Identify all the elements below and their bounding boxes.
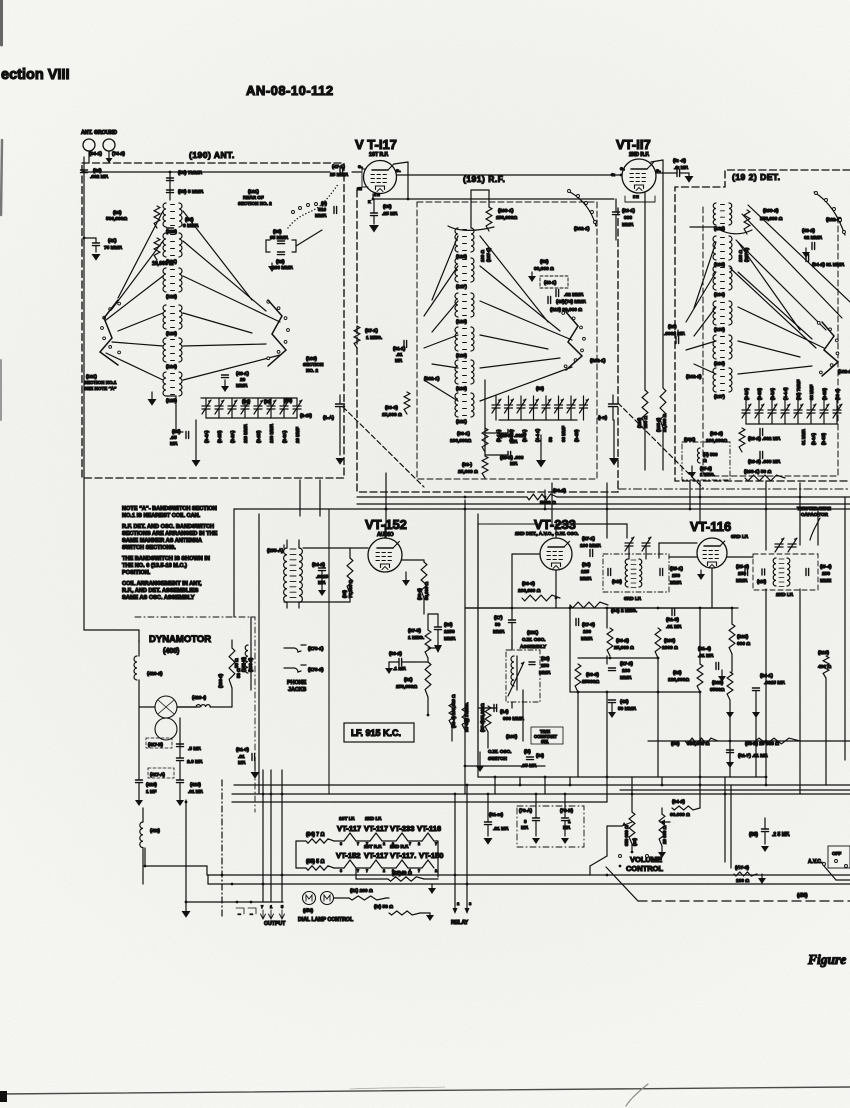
- RF coil (129): [455, 327, 474, 358]
- resistor (93-2) 100,000 ohm: [706, 428, 745, 452]
- line (107-3) net: [716, 862, 756, 868]
- labels 1ST I.F. 2ND I.F.: [339, 816, 382, 821]
- svg-text:MF.: MF.: [510, 461, 518, 467]
- svg-text:ANT. GROUND: ANT. GROUND: [81, 130, 117, 136]
- svg-text:(96-2): (96-2): [553, 488, 566, 494]
- vertical bus x465: [464, 500, 466, 794]
- svg-text:ection VIII: ection VIII: [1, 67, 70, 83]
- capacitor (32) 138 MMF: [268, 252, 293, 272]
- svg-text:(26): (26): [668, 324, 677, 330]
- junction dots set 1: [385, 496, 820, 511]
- choke (420-2): [134, 640, 163, 700]
- wire y608 long: [512, 607, 700, 609]
- svg-text:(66): (66): [749, 832, 758, 838]
- component drops to box bottom: [578, 692, 756, 777]
- wire 3rdIF to VT116: [662, 552, 696, 554]
- wire cw osc to rails: [484, 640, 523, 741]
- svg-text:MMF.: MMF.: [315, 213, 327, 219]
- svg-text:−: −: [238, 912, 241, 918]
- label (162-1) mid: [424, 376, 440, 382]
- resistor (82) 190 ohm: [356, 868, 438, 881]
- capacitor (15-1) 250 MMF: [660, 566, 683, 586]
- svg-text:(9): (9): [321, 201, 327, 207]
- svg-text:(419): (419): [146, 782, 157, 787]
- svg-text:(155-A): (155-A): [267, 548, 284, 554]
- wire left column to dynamotor: [84, 470, 139, 642]
- svg-text:180 MMF.: 180 MMF.: [269, 424, 274, 443]
- resistor (112) 20,000 ohm: [550, 307, 582, 313]
- resistor (84) 7 ohm: [306, 832, 334, 843]
- switch contacts near (9): [292, 203, 318, 214]
- svg-text:VT-117: VT-117: [364, 851, 388, 860]
- wire y766 cwsw: [464, 765, 545, 768]
- svg-text:NO. 2: NO. 2: [306, 368, 318, 373]
- svg-text:(97-8)35,010Ω: (97-8)35,010Ω: [480, 703, 485, 732]
- vacuum tube VT-233: [540, 538, 572, 570]
- svg-text:(84) 7 Ω: (84) 7 Ω: [306, 832, 324, 838]
- dynamotor dash-dot border: [135, 617, 255, 812]
- resistor (97-8): [485, 706, 491, 748]
- volume control pot 20,000 ohm: [658, 814, 667, 858]
- dashed diagonal RF: [343, 407, 424, 487]
- resistor (106-1) 50 ohm: [744, 469, 785, 481]
- svg-text:50,000 Ω: 50,000 Ω: [424, 581, 429, 600]
- svg-text:100,000 Ω: 100,000 Ω: [518, 588, 541, 594]
- svg-text:(16): (16): [582, 562, 591, 568]
- section 190 dashed border: [82, 163, 344, 478]
- 3rd IF windings: [625, 537, 651, 588]
- wire: main left bus: [83, 157, 85, 470]
- left edge scan line: [1, 0, 2, 420]
- filament peaks row2: [334, 860, 437, 873]
- vt233 cathode to rail: [555, 598, 557, 608]
- winding (155-B) 50 ohm: [234, 644, 253, 674]
- label (168): [506, 734, 518, 740]
- antenna coil (121): [163, 233, 182, 264]
- svg-text:G₃: G₃: [396, 169, 401, 173]
- svg-text:(20-1) .008: (20-1) .008: [500, 455, 524, 461]
- capacitor (61-7) .01 MF: [726, 750, 768, 768]
- svg-text:(049): (049): [612, 579, 622, 584]
- svg-text:MMF.: MMF.: [580, 576, 592, 582]
- svg-text:(ıδ9): (ıδ9): [797, 893, 808, 899]
- svg-text:1 MEG.: 1 MEG.: [366, 335, 382, 341]
- svg-text:(112) 20,000 Ω: (112) 20,000 Ω: [550, 307, 582, 313]
- capacitor (27-3) 100 MMF: [576, 619, 595, 643]
- svg-text:MF.: MF.: [510, 439, 518, 445]
- svg-text:MMF.: MMF.: [620, 675, 632, 681]
- svg-text:(108-2): (108-2): [248, 657, 253, 672]
- svg-text:(3-5A): (3-5A): [744, 388, 749, 400]
- ground antenna bank left: [192, 420, 201, 467]
- svg-text:.01: .01: [396, 352, 403, 357]
- pencil scribble bottom: [350, 1084, 648, 1106]
- svg-text:1: 1: [568, 819, 571, 824]
- document number AN-08-10-112: [246, 83, 334, 98]
- label TWISTED WIRE CAPACITOR: [797, 506, 831, 540]
- rail y658: [578, 657, 659, 660]
- svg-text:10,000 Ω: 10,000 Ω: [152, 261, 173, 267]
- svg-text:(99-3): (99-3): [385, 405, 398, 411]
- svg-text:(33): (33): [242, 399, 251, 404]
- svg-text:8: 8: [340, 869, 342, 873]
- svg-text:(61-ıϲ): (61-ıϲ): [489, 812, 504, 818]
- label DIAL LAMP CONTROL: [298, 917, 354, 923]
- svg-text:25 MMF.: 25 MMF.: [330, 172, 348, 178]
- svg-text:(136): (136): [714, 361, 725, 366]
- label TIME CONSTANT SW: [531, 727, 563, 744]
- capacitor (27-2) 100 MMF: [609, 661, 634, 681]
- svg-text:(87-5): (87-5): [408, 628, 421, 634]
- svg-text:(2-5A): (2-5A): [770, 388, 775, 400]
- resistor (103) 1000 ohm: [655, 628, 678, 658]
- svg-text:(74-2): (74-2): [112, 151, 125, 157]
- vertical labels 81MMF (2-6A) (2-6B): [801, 429, 826, 445]
- svg-text:H H: H H: [633, 195, 639, 199]
- phone jack (173-1): [284, 645, 324, 652]
- svg-text:.01 MF.: .01 MF.: [666, 624, 682, 630]
- choke (652) box: [682, 437, 730, 480]
- vertical feeds through buses: [545, 481, 845, 589]
- RF trimmer labels: [496, 386, 579, 442]
- antenna trimmer capacitor bank: [201, 398, 302, 418]
- DET coil (134): [713, 266, 732, 297]
- resistor (95) 70,000 ohm: [342, 558, 353, 598]
- antenna coil (123): [163, 305, 182, 336]
- capacitor (23-2) .002 MF: [748, 429, 781, 443]
- svg-text:(168): (168): [506, 734, 518, 740]
- wire bottom comb verticals: [495, 777, 766, 802]
- resistor (98-2) 25,000 ohm: [607, 628, 634, 656]
- DET trimmer labels: [744, 379, 840, 400]
- capacitor (61-2) .01 MF: [656, 158, 694, 183]
- half-wave rectifier mark: [434, 645, 442, 653]
- svg-text:Gı: Gı: [611, 173, 615, 177]
- resistor (88-1) 25,000 ohm: [458, 456, 488, 478]
- svg-text:(417-B): (417-B): [148, 742, 163, 747]
- svg-text:2ND DET., A.V.C., C.W. OSC.: 2ND DET., A.V.C., C.W. OSC.: [515, 531, 579, 537]
- svg-text:(137): (137): [714, 394, 725, 399]
- svg-text:50 MMF.: 50 MMF.: [618, 706, 636, 712]
- svg-text:(90): (90): [671, 741, 680, 747]
- svg-text:(ı-в): (ı-в): [598, 415, 607, 421]
- svg-text:1 MF: 1 MF: [146, 789, 157, 794]
- svg-text:(2-3B): (2-3B): [822, 388, 827, 400]
- svg-text:(27-2): (27-2): [620, 661, 633, 667]
- capacitor (24-1) .0015 MF: [752, 673, 785, 718]
- 2nd IF windings: [757, 538, 809, 587]
- svg-text:110 MMF.: 110 MMF.: [243, 424, 248, 443]
- svg-text:(23-2) .002 MF.: (23-2) .002 MF.: [748, 436, 781, 442]
- svg-text:.01: .01: [238, 754, 245, 760]
- rail y608 extension: [465, 607, 738, 610]
- resistor (113) 400 ohm: [818, 650, 831, 678]
- capacitor (418) .01 MF: [176, 780, 203, 806]
- svg-text:(400): (400): [163, 648, 179, 655]
- capacitor (419) 1 MF: [135, 780, 157, 806]
- audio section box: [329, 509, 850, 794]
- label DYNAMOTOR (400): [149, 634, 211, 655]
- svg-text:400 Ω: 400 Ω: [818, 664, 831, 670]
- svg-text:300,000 Ω: 300,000 Ω: [687, 741, 710, 747]
- DET trimmer capacitor bank: [742, 400, 842, 424]
- dash-dot line y489 right: [618, 488, 850, 490]
- capacitor (53) 7 MMF: [167, 170, 203, 181]
- svg-text:60.000 Ω: 60.000 Ω: [670, 812, 690, 818]
- svg-text:.25 MF.: .25 MF.: [382, 211, 398, 217]
- svg-text:TWISTED WIRE: TWISTED WIRE: [797, 506, 831, 511]
- svg-text:(6ı -2): (6ı -2): [673, 158, 686, 164]
- ground after (82) resistor: [428, 884, 436, 894]
- wire vt116 cathode rail: [700, 594, 732, 608]
- dashed line (169): [606, 867, 850, 901]
- svg-text:(420-ı): (420-ı): [192, 695, 207, 701]
- svg-text:1ST R.F.: 1ST R.F.: [369, 152, 389, 158]
- dynamotor internal wires: [139, 700, 180, 780]
- svg-text:(127): (127): [456, 284, 467, 289]
- capacitor (61-9) .01 MF: [236, 747, 260, 779]
- wire det coil132 feed: [690, 226, 716, 228]
- svg-text:2: 2: [383, 842, 385, 846]
- IF 915 KC box: [344, 723, 414, 742]
- svg-text:THE BANDSWITCH IS SHOWN IN: THE BANDSWITCH IS SHOWN IN: [122, 556, 210, 562]
- svg-text:REAR OF: REAR OF: [243, 195, 264, 200]
- svg-text:3RD I.F.: 3RD I.F.: [731, 534, 748, 540]
- capacitor (65) .25 MF: [369, 199, 398, 233]
- svg-text:(14): (14): [500, 709, 509, 715]
- svg-text:125: 125: [581, 569, 589, 575]
- horizontal bus y504: [357, 503, 850, 505]
- wire mid column x607: [606, 760, 608, 794]
- rail y692: [570, 691, 701, 694]
- svg-text:(59): (59): [540, 259, 549, 265]
- wire rf coil top: [471, 190, 489, 228]
- bus line y902 short: [185, 901, 283, 904]
- section 192 inner dashed border: [703, 207, 838, 476]
- svg-text:VT-117: VT-117: [364, 824, 388, 833]
- vacuum tube VT-116: [697, 538, 727, 580]
- output arrows: [261, 910, 285, 919]
- svg-text:(40)(74) MMF.: (40)(74) MMF.: [556, 299, 586, 305]
- svg-text:(120): (120): [166, 229, 177, 234]
- svg-text:(420-2): (420-2): [147, 671, 163, 677]
- capacitor (63-2) .1 MF: [385, 651, 428, 674]
- svg-text:(2-6B): (2-6B): [821, 433, 826, 445]
- svg-text:7: 7: [366, 869, 368, 873]
- label (151) C.W. OSC. ASSEMBLY: [520, 630, 547, 650]
- tube heater labels row2: [336, 851, 443, 860]
- svg-text:OFF: OFF: [832, 851, 841, 856]
- svg-text:(61-5): (61-5): [666, 617, 679, 623]
- svg-text:OUTPUT: OUTPUT: [264, 921, 286, 927]
- svg-text:(8ı) 50 Ω: (8ı) 50 Ω: [374, 904, 393, 910]
- svg-text:(123): (123): [166, 331, 177, 336]
- svg-text:(ıϟ7-3): (ıϟ7-3): [735, 865, 749, 871]
- wire vt233 grid: [512, 554, 556, 608]
- svg-text:(160): (160): [306, 356, 317, 361]
- wire right column x845 lower: [844, 589, 846, 760]
- svg-text:RELAY: RELAY: [451, 920, 469, 926]
- svg-text:(161): (161): [86, 374, 97, 379]
- label (107-1) 100 ohm: [480, 247, 491, 262]
- wire tube152 plate right: [385, 524, 438, 614]
- svg-text:(94-2): (94-2): [672, 799, 685, 805]
- resistor (99-3) 15,000 ohm: [382, 392, 410, 418]
- svg-text:SECTIONS ARE ARRANGED IN THE: SECTIONS ARE ARRANGED IN THE: [122, 531, 218, 537]
- wire vt233 plate top: [556, 524, 627, 538]
- capacitor (43-1) 62 MMF: [540, 276, 584, 298]
- svg-text:.05: .05: [170, 435, 177, 441]
- svg-text:2ND R.F.: 2ND R.F.: [390, 844, 409, 849]
- svg-text:MF.: MF.: [395, 358, 402, 363]
- svg-text:(32): (32): [276, 259, 285, 265]
- svg-text:VT-233: VT-233: [390, 824, 414, 833]
- svg-text:250: 250: [672, 573, 680, 579]
- bus line y884: [208, 875, 850, 884]
- svg-text:75 MMF.: 75 MMF.: [104, 245, 122, 251]
- capacitor (13-1) 338 MMF: [613, 199, 636, 240]
- svg-text:1250: 1250: [444, 629, 455, 635]
- svg-text:25,000 Ω: 25,000 Ω: [458, 469, 478, 475]
- svg-text:(130): (130): [456, 386, 467, 391]
- svg-text:38 MMF: 38 MMF: [561, 426, 566, 442]
- svg-text:(102̵): (102̵): [712, 680, 724, 686]
- resistor (92) 120,000 ohm: [668, 664, 703, 692]
- capacitor (29) 1250 MMF: [435, 614, 456, 648]
- svg-text:7: 7: [418, 869, 420, 873]
- switch section bottom right: [590, 855, 649, 868]
- svg-text:150,000Ω: 150,000Ω: [496, 215, 517, 221]
- svg-text:(1-A): (1-A): [323, 415, 334, 421]
- wire osc section buses: [465, 608, 540, 766]
- svg-text:(ι5-4): (ι5-4): [820, 564, 832, 570]
- svg-text:(65): (65): [383, 204, 392, 210]
- svg-text:1000 Ω: 1000 Ω: [662, 645, 678, 651]
- svg-text:DYNAMOTOR: DYNAMOTOR: [149, 634, 211, 645]
- svg-text:ASSEMBLY: ASSEMBLY: [520, 644, 547, 650]
- capacitor (417-B) .5 MF: [146, 738, 201, 752]
- svg-text:3500Ω: 3500Ω: [710, 687, 725, 693]
- capacitor (40)(74) MMF: [548, 297, 586, 306]
- svg-text:250: 250: [822, 571, 830, 577]
- resistor (11) 200 ohm: [334, 888, 386, 900]
- svg-text:2ND R.F.: 2ND R.F.: [629, 152, 650, 158]
- svg-text:350 000 Ω: 350 000 Ω: [624, 825, 629, 846]
- svg-text:(87-2): (87-2): [700, 466, 712, 471]
- resistor (108-2) 50 ohm vertical label: [218, 648, 241, 688]
- capacitor (19) 250 MMF: [529, 656, 551, 676]
- vt233 section box: [478, 524, 539, 760]
- horizontal bus y509: [234, 508, 850, 510]
- svg-text:50: 50: [548, 437, 553, 442]
- wire: screen bus y199: [372, 198, 614, 201]
- svg-text:81 MMF.: 81 MMF.: [801, 429, 806, 445]
- bandswitch wiring fan (antenna right): [183, 211, 280, 380]
- svg-text:3H: 3H: [357, 187, 362, 191]
- RF trimmer capacitor bank: [492, 396, 589, 420]
- svg-text:5000 Ω: 5000 Ω: [540, 500, 556, 506]
- svg-text:(2-4B): (2-4B): [574, 429, 579, 442]
- ground RF bank: [536, 420, 619, 468]
- svg-text:(42ı): (42ı): [150, 828, 160, 834]
- label OUTPUT: [264, 921, 286, 927]
- vertical label (52) 7 MMF: [0, 0, 1, 1]
- audio transformer (155-A): [267, 540, 302, 608]
- capacitor (61-4) .01 MF: [698, 646, 726, 682]
- capacitor (1-B): [598, 395, 618, 421]
- svg-text:50: 50: [495, 622, 501, 628]
- svg-text:20: 20: [240, 377, 246, 383]
- dial lamp (185) pair: [303, 892, 334, 915]
- svg-text:POSITION.: POSITION.: [122, 570, 151, 576]
- svg-text:38 MMF: 38 MMF: [809, 384, 814, 400]
- svg-text:3RD I.F.: 3RD I.F.: [624, 596, 641, 602]
- svg-text:25,000 Ω: 25,000 Ω: [614, 645, 634, 651]
- svg-text:MMF.: MMF.: [581, 636, 593, 642]
- svg-text:G₂: G₂: [358, 165, 363, 169]
- capacitor (70-A) 8 MF: [519, 794, 540, 844]
- wire 95mmf link: [266, 230, 322, 252]
- resistor (93-3) 100,000 ohm: [518, 581, 560, 601]
- chain right vertical: [434, 841, 438, 877]
- svg-text:(86): (86): [172, 429, 181, 435]
- resistor (81) 50 ohm: [374, 898, 420, 915]
- svg-text:(122): (122): [166, 294, 177, 299]
- chain left bracket: [296, 841, 306, 868]
- wire VT116 to 2ndIF: [728, 552, 754, 554]
- svg-text:SECTION: SECTION: [303, 362, 324, 367]
- resistor (59) 30,000 ohm: [528, 259, 554, 282]
- svg-text:8: 8: [524, 819, 527, 824]
- RF coil (131): [455, 393, 474, 424]
- capacitor (49-1) 20 MMF: [221, 371, 249, 392]
- svg-text:(3-3B): (3-3B): [757, 388, 762, 400]
- svg-text:(2-ıB): (2-ıB): [300, 413, 312, 418]
- svg-text:(109-2): (109-2): [763, 208, 779, 214]
- svg-text:(93-2): (93-2): [710, 431, 723, 437]
- junction dots set 2: [262, 784, 768, 796]
- svg-text:.01 MF.: .01 MF.: [188, 789, 203, 794]
- svg-text:2ND I.F.: 2ND I.F.: [776, 592, 793, 598]
- svg-text:(24-2): (24-2): [312, 562, 325, 568]
- capacitor (27-1) 100 MMF: [580, 536, 601, 557]
- bottom bus lines: [232, 785, 850, 802]
- tube heater labels row1: [337, 824, 441, 833]
- bandswitch RF contacts: [562, 312, 586, 370]
- svg-text:(417-A): (417-A): [150, 772, 165, 777]
- junction dots set 4: [144, 801, 634, 886]
- svg-text:(91): (91): [404, 677, 413, 683]
- ground below coil stack: [148, 392, 157, 406]
- svg-text:8: 8: [340, 842, 342, 846]
- svg-text:MMF.: MMF.: [539, 670, 551, 676]
- vertical resistor (106) 250 ohm: [637, 390, 648, 428]
- svg-text:AN-08-10-112: AN-08-10-112: [246, 83, 334, 98]
- ground symbol at input: [106, 158, 113, 163]
- dynamotor armature circles: [139, 696, 200, 740]
- svg-text:(63-2): (63-2): [389, 651, 402, 657]
- wire: grid bus y175: [397, 174, 622, 177]
- svg-text:1 MEG.: 1 MEG.: [700, 472, 715, 477]
- 3rd IF transformer box: [603, 554, 669, 602]
- svg-text:(134): (134): [714, 292, 725, 297]
- wire RF to VT-152 grid: [385, 473, 387, 538]
- antenna coil (120): [163, 203, 182, 234]
- capacitor (417-A) 2.8 MF: [148, 758, 203, 778]
- svg-text:(82)ıƚ0 Ω: (82)ıƚ0 Ω: [392, 871, 412, 877]
- wire: tube1 plate drop: [394, 162, 408, 199]
- svg-text:(2-4A): (2-4A): [204, 430, 209, 443]
